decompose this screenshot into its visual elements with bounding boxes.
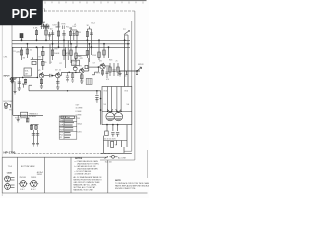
notes paragraph bbox=[74, 176, 103, 192]
plate resistor R7 bbox=[63, 40, 65, 60]
transistor Q4 bbox=[80, 68, 89, 74]
svg-text:AC LINE: AC LINE bbox=[118, 156, 126, 159]
svg-text:4 OHM: 4 OHM bbox=[76, 115, 82, 117]
svg-text:V,R,B Lst: V,R,B Lst bbox=[61, 116, 70, 119]
speaker output line bbox=[119, 40, 140, 86]
tone box above wire bbox=[72, 58, 80, 66]
plate resistor R9 bbox=[75, 47, 77, 65]
svg-text:MAXIMUM 2 VOLT LINE: MAXIMUM 2 VOLT LINE bbox=[74, 188, 94, 191]
tube V6 element hatch bbox=[115, 117, 122, 120]
svg-text:R2: R2 bbox=[39, 57, 41, 59]
svg-text:B E C: B E C bbox=[31, 189, 36, 191]
plate resistor R10 bbox=[98, 40, 100, 60]
svg-text:R7: R7 bbox=[60, 63, 62, 65]
divider drop with cap and ground bbox=[92, 67, 99, 102]
svg-text:HTR: HTR bbox=[62, 24, 67, 26]
svg-text:R31 C14 R32 C15: R31 C14 R32 C15 bbox=[15, 117, 30, 119]
svg-text:R18: R18 bbox=[109, 60, 112, 62]
ground rail wire bbox=[29, 90, 101, 92]
rail junction dots bbox=[67, 90, 98, 92]
legend row blobs bbox=[64, 120, 74, 139]
heater feed wires bbox=[108, 87, 122, 112]
svg-text:.02: .02 bbox=[59, 70, 62, 72]
notes list bbox=[75, 160, 100, 176]
cell2 code column bbox=[37, 171, 43, 176]
ground rail left corner bbox=[29, 85, 32, 91]
basing diagram circle Q-a bbox=[5, 176, 15, 182]
svg-text:250K: 250K bbox=[72, 64, 77, 66]
small box R5b bbox=[32, 61, 36, 64]
svg-text:1W: 1W bbox=[78, 32, 81, 34]
page top scan edge bbox=[0, 0, 147, 1]
svg-text:C4: C4 bbox=[50, 62, 52, 64]
svg-text:INPUT: INPUT bbox=[4, 76, 11, 78]
output tube V6 envelope bbox=[114, 109, 122, 121]
grid stopper junction dot bbox=[22, 77, 24, 79]
driver input wire bbox=[89, 67, 100, 71]
svg-text:.02: .02 bbox=[30, 50, 33, 52]
speaker junction dot bbox=[136, 70, 138, 72]
output transformer T2 primary feed bbox=[124, 31, 130, 44]
svg-text:6V6: 6V6 bbox=[125, 91, 128, 93]
ground at speaker line bbox=[118, 71, 127, 76]
power feed drops bbox=[101, 47, 109, 124]
secondary drops bbox=[107, 125, 127, 131]
bottom info band borders bbox=[2, 157, 147, 193]
dropping network R23 group bbox=[69, 27, 78, 47]
phase splitter feed wires bbox=[86, 40, 91, 67]
svg-text:12AX7: 12AX7 bbox=[55, 26, 60, 29]
svg-text:INTENS: INTENS bbox=[29, 116, 37, 118]
filter cap C10 bbox=[116, 133, 119, 137]
decoupling resistor R20 above bus bbox=[35, 29, 37, 40]
svg-text:COM: COM bbox=[76, 118, 81, 120]
screen resistor R24 pair bbox=[86, 27, 93, 48]
footswitch jack J2 bbox=[4, 103, 11, 108]
resistor R4 bbox=[26, 44, 28, 58]
tube heater line bbox=[102, 110, 132, 112]
svg-text:B+2: B+2 bbox=[92, 23, 95, 25]
svg-text:NOTES: NOTES bbox=[75, 158, 83, 160]
bus junction dots bbox=[21, 39, 129, 48]
schematic border frame bbox=[12, 11, 147, 178]
basing diagram circle Q-c bbox=[19, 181, 28, 187]
emitter resistor R16 with ground bbox=[40, 78, 43, 88]
svg-text:25: 25 bbox=[116, 61, 118, 63]
dropping resistor R21 bbox=[44, 27, 48, 40]
foot switch box S2 bbox=[21, 112, 28, 117]
svg-text:BOTTOM VIEW: BOTTOM VIEW bbox=[21, 166, 35, 168]
triode circle V2b bbox=[73, 67, 77, 71]
PDF badge bbox=[0, 0, 43, 25]
svg-text:CASE: CASE bbox=[7, 172, 13, 175]
input stage ground cluster bbox=[18, 77, 25, 90]
extra cap above bus bbox=[48, 32, 51, 40]
svg-text:PL1: PL1 bbox=[66, 27, 69, 29]
svg-text:.01: .01 bbox=[66, 55, 69, 57]
feedback box bbox=[85, 65, 88, 68]
svg-text:2N2148: 2N2148 bbox=[20, 177, 26, 179]
box bottom junction dots bbox=[106, 124, 118, 126]
speaker arrow bbox=[136, 67, 142, 74]
resistor R22 bbox=[57, 22, 59, 48]
B+ bus (upper supply rail) bbox=[12, 39, 130, 41]
plate resistor R6 bbox=[51, 44, 53, 60]
trem caps C8 C9 with grounds bbox=[32, 130, 39, 146]
svg-text:C9: C9 bbox=[93, 63, 95, 65]
svg-text:B E C: B E C bbox=[20, 189, 25, 191]
svg-text:HP-1700: HP-1700 bbox=[4, 151, 16, 155]
B2+ bus (middle supply rail) bbox=[12, 43, 130, 45]
svg-text:EZ81: EZ81 bbox=[77, 132, 81, 134]
filter cap C20 bbox=[51, 30, 54, 44]
plate resistor R8 bbox=[70, 44, 72, 63]
splitter coupling wire bbox=[76, 55, 87, 57]
plate loads below bus: resistor R3 bbox=[20, 47, 22, 60]
electrolytic cap C22 on B+ bus bbox=[20, 34, 23, 41]
junction dot C2 bbox=[52, 75, 54, 77]
plate resistor R11 bbox=[103, 44, 105, 58]
svg-text:CH1: CH1 bbox=[4, 57, 8, 59]
svg-text:100K: 100K bbox=[54, 53, 60, 55]
scattered value labels bbox=[14, 49, 127, 82]
connector box CN1 bbox=[86, 78, 92, 84]
interstage verticals bbox=[50, 40, 68, 68]
svg-text:2N301: 2N301 bbox=[31, 177, 36, 179]
svg-text:6BQ5: 6BQ5 bbox=[77, 124, 82, 126]
junction dot riser bbox=[37, 77, 39, 79]
svg-text:2N301: 2N301 bbox=[37, 174, 42, 176]
tube V5 element hatch bbox=[107, 117, 114, 120]
svg-text:PDF: PDF bbox=[12, 7, 37, 21]
fuse F1 bbox=[110, 155, 118, 158]
svg-text:16 OHM: 16 OHM bbox=[76, 108, 83, 110]
svg-text:FOOT SW: FOOT SW bbox=[4, 101, 13, 103]
transistor Q2 bbox=[39, 72, 49, 78]
legend rows bbox=[60, 119, 65, 139]
power label column bbox=[76, 105, 83, 121]
parts legend table bbox=[59, 116, 77, 139]
trem drop with box bbox=[26, 117, 29, 122]
interstage wire at node A bbox=[31, 57, 43, 59]
svg-text:SPKR: SPKR bbox=[138, 64, 144, 66]
emitter bypass C5 with ground bbox=[56, 78, 59, 90]
svg-text:F1: F1 bbox=[60, 137, 62, 139]
svg-text:1M: 1M bbox=[25, 74, 28, 76]
heater junction dots bbox=[107, 111, 122, 112]
svg-text:.05: .05 bbox=[44, 62, 47, 64]
svg-text:TO-5: TO-5 bbox=[8, 166, 12, 168]
transistor Q5 bbox=[100, 63, 105, 69]
svg-text:S-M 100: S-M 100 bbox=[105, 161, 112, 163]
trem drop with ground g1 bbox=[17, 115, 20, 122]
note right paragraph bbox=[115, 182, 156, 190]
svg-text:d. DESIGN CIRCUIT: d. DESIGN CIRCUIT bbox=[75, 174, 92, 176]
tremolo section wire bbox=[13, 47, 43, 115]
output tube V5 envelope bbox=[106, 109, 114, 121]
coupling cap C2 bbox=[49, 74, 55, 77]
bias resistor box bbox=[105, 131, 109, 136]
svg-text:220K: 220K bbox=[16, 52, 22, 54]
input return drop with ground bbox=[14, 82, 17, 94]
signal wire jack to volume bbox=[14, 77, 37, 79]
rectifier box bbox=[102, 87, 132, 125]
cap C21 bbox=[62, 30, 65, 40]
cathode network below volume bbox=[24, 79, 27, 85]
page left edge line bbox=[1, 20, 3, 196]
junction dots on wire bbox=[68, 72, 70, 74]
shunt cap C3 with ground bbox=[66, 72, 69, 82]
svg-text:6V6: 6V6 bbox=[104, 91, 107, 93]
basing diagram circle Q-d bbox=[29, 181, 38, 187]
svg-text:5.6K: 5.6K bbox=[33, 28, 38, 30]
riser wire to bus bbox=[36, 47, 38, 77]
frame tick mark bbox=[43, 8, 46, 12]
shunt resistor R13 with ground bbox=[71, 72, 74, 82]
heater wiring labels top bbox=[41, 24, 50, 30]
small bars under driver line bbox=[101, 67, 108, 78]
basing diagram circle Q-b bbox=[5, 184, 15, 190]
transistor Q3 bbox=[56, 72, 81, 78]
resistor R5 on riser bbox=[42, 47, 44, 70]
output network R15 bbox=[105, 63, 119, 76]
input jack J1 bbox=[10, 77, 17, 83]
svg-text:8 OHM: 8 OHM bbox=[76, 111, 82, 113]
volume control R12 box bbox=[24, 68, 31, 76]
trem cap cluster C7 bbox=[30, 125, 38, 131]
filter cap C9 bbox=[111, 133, 114, 137]
junction dot driver bbox=[98, 66, 100, 68]
emitter resistor R18 with ground bbox=[80, 73, 83, 83]
AC line wire bbox=[101, 147, 132, 153]
svg-text:R1: R1 bbox=[14, 51, 16, 53]
power transformer T1 wires bbox=[104, 131, 128, 147]
switch S1 bbox=[105, 156, 109, 158]
feed junction dots bbox=[100, 98, 102, 111]
ruler tick marks bbox=[45, 2, 143, 4]
B3+ bus (lower supply rail) bbox=[12, 46, 130, 48]
svg-text:470: 470 bbox=[106, 79, 109, 81]
svg-text:NOTE: NOTE bbox=[115, 180, 121, 182]
svg-text:KNOWN OTHER TYPE.: KNOWN OTHER TYPE. bbox=[115, 188, 136, 190]
